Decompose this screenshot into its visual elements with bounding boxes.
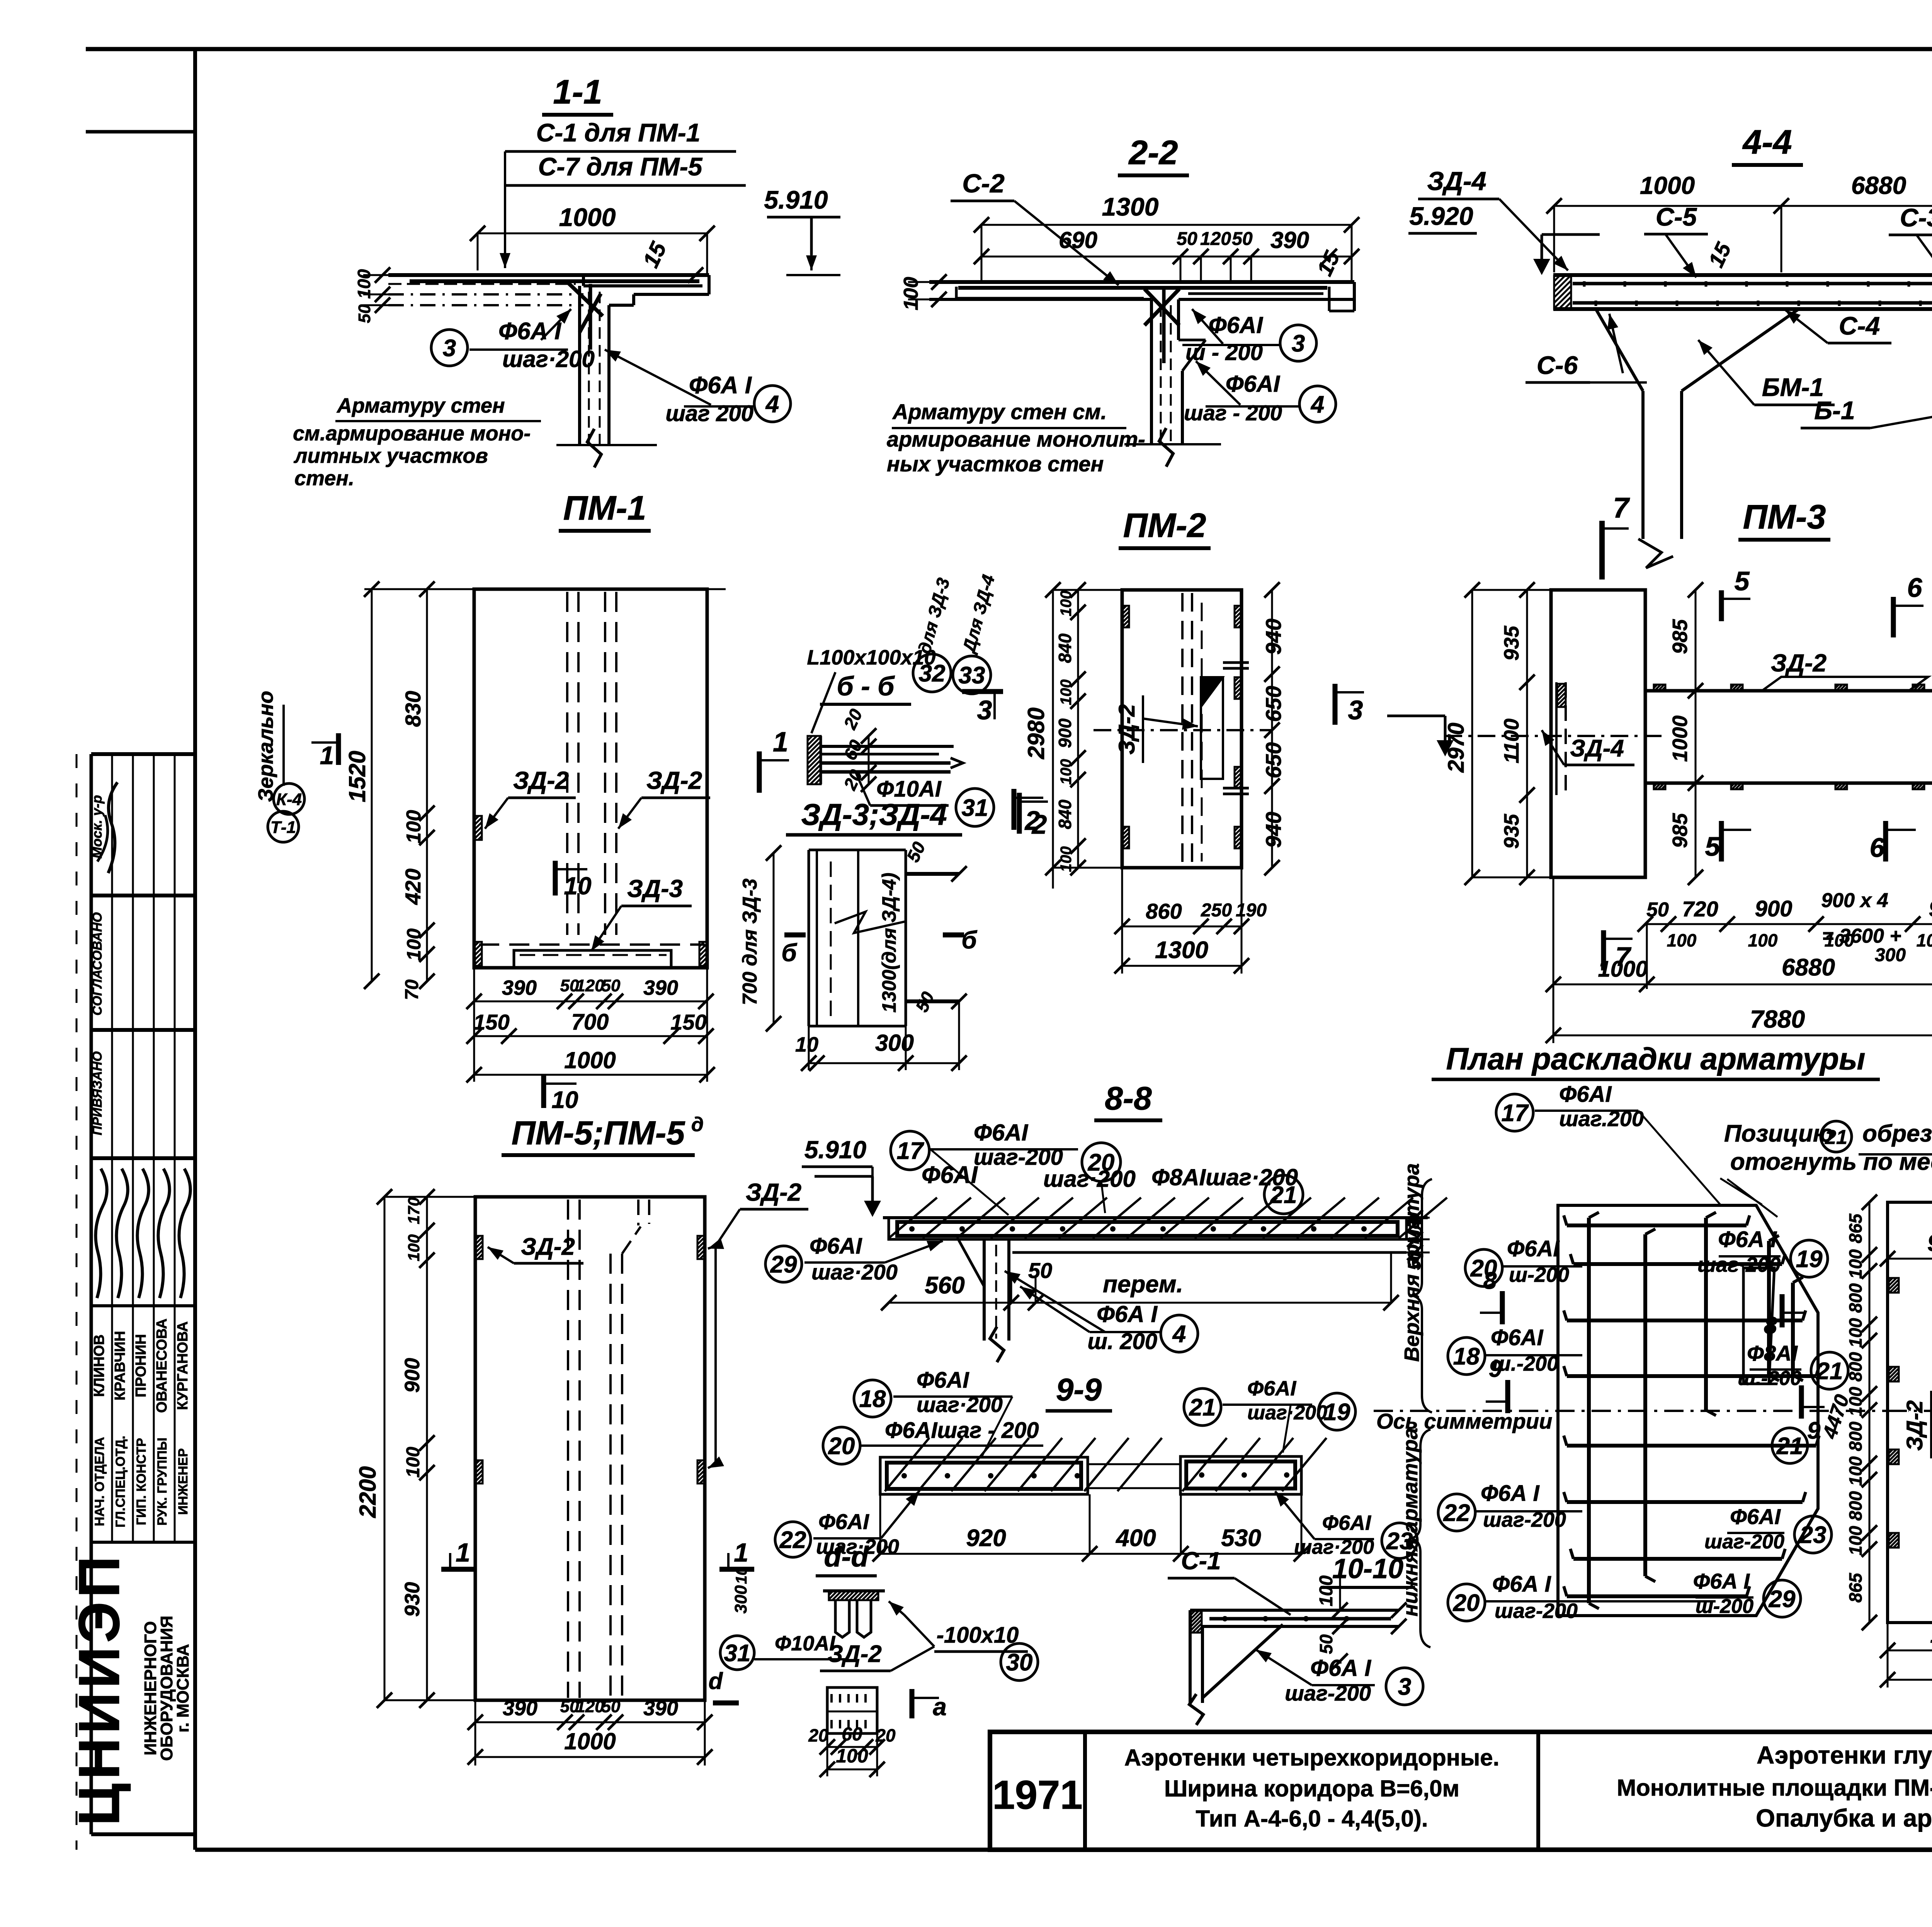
svg-text:100: 100 bbox=[403, 810, 425, 844]
svg-text:2970: 2970 bbox=[1444, 722, 1469, 773]
svg-text:420: 420 bbox=[401, 868, 425, 905]
svg-text:ЦНИИЭП: ЦНИИЭП bbox=[66, 1552, 131, 1826]
svg-text:1000: 1000 bbox=[1640, 172, 1695, 199]
svg-text:6: 6 bbox=[1870, 833, 1885, 863]
svg-text:100: 100 bbox=[1667, 930, 1697, 950]
svg-text:б: б bbox=[781, 939, 798, 967]
svg-text:4: 4 bbox=[1172, 1321, 1186, 1348]
svg-text:8: 8 bbox=[1483, 1268, 1497, 1294]
svg-text:ПРОНИН: ПРОНИН bbox=[133, 1334, 149, 1397]
svg-text:920: 920 bbox=[1927, 1230, 1932, 1256]
svg-text:Ф6А I: Ф6А I bbox=[1718, 1227, 1777, 1252]
svg-text:ш-200: ш-200 bbox=[1509, 1263, 1569, 1286]
svg-text:перем.: перем. bbox=[1103, 1271, 1183, 1298]
svg-text:ш-200: ш-200 bbox=[1696, 1595, 1753, 1618]
svg-text:1-1: 1-1 bbox=[553, 73, 602, 111]
svg-text:700 для ЗД-3: 700 для ЗД-3 bbox=[739, 879, 761, 1005]
svg-text:ш.-200: ш.-200 bbox=[1738, 1367, 1801, 1390]
svg-text:Ф6АI: Ф6АI bbox=[810, 1234, 862, 1259]
svg-text:4-4: 4-4 bbox=[1742, 123, 1792, 161]
svg-text:6880: 6880 bbox=[1851, 172, 1906, 199]
svg-text:940: 940 bbox=[1261, 812, 1286, 848]
svg-text:700: 700 bbox=[571, 1009, 609, 1035]
svg-text:300: 300 bbox=[1875, 945, 1906, 965]
svg-text:Ф6А I: Ф6А I bbox=[1097, 1301, 1158, 1327]
svg-text:100: 100 bbox=[403, 1447, 423, 1478]
svg-text:РУК. ГРУППЫ: РУК. ГРУППЫ bbox=[155, 1438, 170, 1526]
svg-text:50: 50 bbox=[1177, 229, 1197, 249]
svg-text:300: 300 bbox=[875, 1030, 914, 1056]
svg-text:20: 20 bbox=[828, 1433, 855, 1460]
svg-text:1: 1 bbox=[456, 1538, 470, 1567]
svg-text:390: 390 bbox=[502, 976, 537, 999]
svg-text:100: 100 bbox=[1316, 1575, 1337, 1606]
svg-text:ЗД-3: ЗД-3 bbox=[627, 875, 683, 902]
svg-text:ш.-200: ш.-200 bbox=[1492, 1352, 1558, 1375]
svg-text:29: 29 bbox=[770, 1251, 797, 1278]
svg-text:100: 100 bbox=[354, 269, 374, 299]
svg-text:ЗД-2: ЗД-2 bbox=[828, 1641, 882, 1667]
svg-text:7: 7 bbox=[1613, 492, 1630, 524]
svg-text:100: 100 bbox=[1748, 930, 1778, 950]
svg-text:ПМ-1: ПМ-1 bbox=[563, 489, 646, 527]
svg-text:ЗД-3;ЗД-4: ЗД-3;ЗД-4 bbox=[801, 797, 947, 831]
svg-text:840: 840 bbox=[1055, 633, 1075, 663]
svg-text:21: 21 bbox=[1270, 1182, 1297, 1208]
svg-text:ЗД-2: ЗД-2 bbox=[521, 1234, 575, 1260]
svg-text:3: 3 bbox=[1348, 695, 1363, 725]
svg-text:Ф6АI: Ф6АI bbox=[1322, 1511, 1371, 1534]
svg-text:Ф6А I: Ф6А I bbox=[498, 318, 562, 345]
svg-text:1000: 1000 bbox=[564, 1728, 616, 1754]
svg-text:Аэротенки глубиной 5.0м.: Аэротенки глубиной 5.0м. bbox=[1757, 1741, 1932, 1769]
svg-text:800: 800 bbox=[1845, 1421, 1866, 1451]
svg-text:20: 20 bbox=[875, 1725, 896, 1745]
svg-text:3: 3 bbox=[443, 335, 456, 362]
svg-text:50: 50 bbox=[602, 976, 621, 995]
svg-text:ГИП. КОНСТР: ГИП. КОНСТР bbox=[134, 1438, 149, 1525]
svg-text:100: 100 bbox=[1917, 930, 1932, 950]
svg-text:1000: 1000 bbox=[1668, 715, 1692, 762]
svg-text:литных участков: литных участков bbox=[293, 444, 488, 467]
svg-text:100: 100 bbox=[836, 1745, 868, 1767]
svg-text:22: 22 bbox=[1443, 1500, 1470, 1526]
svg-text:100: 100 bbox=[403, 928, 425, 961]
svg-text:17: 17 bbox=[1502, 1100, 1529, 1127]
svg-text:190: 190 bbox=[1236, 900, 1267, 921]
svg-text:910: 910 bbox=[1929, 896, 1932, 921]
svg-text:КУРГАНОВА: КУРГАНОВА bbox=[175, 1321, 191, 1410]
svg-text:ГЛ.СПЕЦ.ОТД.: ГЛ.СПЕЦ.ОТД. bbox=[113, 1436, 128, 1528]
svg-text:1300(для ЗД-4): 1300(для ЗД-4) bbox=[878, 873, 900, 1013]
svg-text:390: 390 bbox=[643, 976, 678, 999]
svg-text:10: 10 bbox=[733, 1567, 750, 1584]
svg-text:650: 650 bbox=[1261, 742, 1286, 778]
svg-text:100: 100 bbox=[1058, 759, 1075, 785]
svg-text:КЛИНОВ: КЛИНОВ bbox=[91, 1334, 107, 1397]
svg-text:100: 100 bbox=[405, 1234, 423, 1261]
svg-text:50: 50 bbox=[1316, 1634, 1336, 1654]
svg-text:Б-1: Б-1 bbox=[1814, 396, 1855, 425]
svg-text:2-2: 2-2 bbox=[1128, 133, 1178, 172]
svg-text:7: 7 bbox=[1616, 941, 1632, 972]
svg-text:7880: 7880 bbox=[1750, 1005, 1805, 1033]
svg-text:530: 530 bbox=[1221, 1525, 1261, 1551]
svg-text:ПМ-3: ПМ-3 bbox=[1743, 498, 1826, 536]
svg-text:60: 60 bbox=[842, 1724, 862, 1745]
svg-text:20: 20 bbox=[808, 1725, 828, 1745]
svg-text:д: д bbox=[691, 1113, 704, 1136]
svg-text:50: 50 bbox=[355, 304, 374, 323]
svg-text:Аэротенки четырехкоридорные.: Аэротенки четырехкоридорные. bbox=[1124, 1745, 1500, 1771]
svg-text:860: 860 bbox=[1146, 899, 1182, 923]
svg-text:9: 9 bbox=[1807, 1417, 1821, 1444]
svg-text:ОВАНЕСОВА: ОВАНЕСОВА bbox=[154, 1319, 170, 1413]
svg-text:С-1 для ПМ-1: С-1 для ПМ-1 bbox=[536, 118, 701, 147]
svg-text:985: 985 bbox=[1668, 619, 1692, 654]
svg-text:10: 10 bbox=[564, 872, 591, 900]
svg-text:С-5: С-5 bbox=[1656, 202, 1697, 231]
svg-text:5.910: 5.910 bbox=[804, 1136, 866, 1164]
svg-text:С-2: С-2 bbox=[962, 169, 1005, 198]
svg-text:С-4: С-4 bbox=[1839, 311, 1880, 340]
svg-text:2200: 2200 bbox=[355, 1466, 381, 1518]
svg-text:100: 100 bbox=[1845, 1249, 1866, 1279]
svg-text:935: 935 bbox=[1500, 814, 1523, 849]
svg-text:100: 100 bbox=[1845, 1526, 1866, 1555]
svg-text:шаг·200: шаг·200 bbox=[917, 1392, 1003, 1417]
svg-text:21: 21 bbox=[1825, 1126, 1847, 1149]
svg-text:1: 1 bbox=[320, 741, 334, 770]
svg-text:900: 900 bbox=[401, 1358, 424, 1393]
svg-text:10-10: 10-10 bbox=[1332, 1553, 1403, 1584]
svg-text:Ф6АI: Ф6АI bbox=[818, 1509, 869, 1534]
svg-text:20: 20 bbox=[840, 706, 866, 733]
svg-text:15: 15 bbox=[1704, 238, 1736, 271]
svg-text:Позицию: Позицию bbox=[1724, 1120, 1834, 1147]
svg-text:Верхняя арматура: Верхняя арматура bbox=[1400, 1163, 1423, 1362]
svg-text:3: 3 bbox=[1292, 330, 1305, 357]
svg-text:ЗД-2: ЗД-2 bbox=[513, 766, 569, 794]
svg-text:К-4: К-4 bbox=[276, 790, 302, 809]
svg-text:Тип А-4-6,0 - 4,4(5,0).: Тип А-4-6,0 - 4,4(5,0). bbox=[1196, 1806, 1428, 1832]
svg-text:б - б: б - б bbox=[837, 671, 895, 701]
svg-text:шаг·200: шаг·200 bbox=[1697, 1253, 1781, 1276]
svg-text:2980: 2980 bbox=[1023, 707, 1049, 759]
svg-text:Ф6АI: Ф6АI bbox=[1559, 1082, 1612, 1107]
svg-text:250: 250 bbox=[1201, 900, 1232, 921]
svg-text:5.910: 5.910 bbox=[764, 185, 828, 214]
svg-text:С-7 для ПМ-5: С-7 для ПМ-5 bbox=[538, 152, 703, 181]
svg-text:300: 300 bbox=[731, 1585, 750, 1614]
svg-text:1520: 1520 bbox=[344, 751, 370, 802]
svg-text:30: 30 bbox=[1006, 1649, 1033, 1676]
svg-text:Арматуру стен см.: Арматуру стен см. bbox=[892, 399, 1107, 424]
svg-text:15: 15 bbox=[638, 238, 671, 272]
svg-text:1000: 1000 bbox=[564, 1047, 616, 1073]
svg-text:10: 10 bbox=[795, 1033, 818, 1056]
svg-text:100: 100 bbox=[1058, 680, 1075, 705]
svg-text:Опалубка и армирование.: Опалубка и армирование. bbox=[1756, 1804, 1932, 1832]
svg-text:Ф6А I: Ф6А I bbox=[689, 372, 752, 399]
svg-text:120: 120 bbox=[1200, 229, 1231, 249]
svg-text:ЗД-4: ЗД-4 bbox=[1427, 167, 1486, 196]
svg-text:1: 1 bbox=[773, 727, 788, 758]
svg-text:СОГЛАСОВАНО: СОГЛАСОВАНО bbox=[90, 912, 105, 1015]
svg-text:920: 920 bbox=[966, 1525, 1006, 1551]
svg-text:18: 18 bbox=[1453, 1343, 1480, 1370]
svg-text:18: 18 bbox=[859, 1386, 886, 1412]
svg-text:390: 390 bbox=[643, 1697, 678, 1720]
svg-text:Арматуру стен: Арматуру стен bbox=[336, 394, 505, 417]
svg-text:120: 120 bbox=[576, 1697, 604, 1716]
svg-text:обрезать и: обрезать и bbox=[1862, 1120, 1932, 1147]
svg-text:170: 170 bbox=[405, 1197, 423, 1224]
svg-text:985: 985 bbox=[1668, 813, 1692, 848]
svg-text:шаг - 200: шаг - 200 bbox=[1184, 401, 1282, 425]
svg-text:б: б bbox=[961, 926, 978, 954]
svg-text:КРАВЧИН: КРАВЧИН bbox=[112, 1331, 128, 1400]
svg-text:План раскладки арматуры: План раскладки арматуры bbox=[1446, 1042, 1866, 1076]
svg-text:8-8: 8-8 bbox=[1105, 1080, 1152, 1116]
svg-text:нижняя арматура: нижняя арматура bbox=[1399, 1428, 1422, 1617]
svg-text:С-3: С-3 bbox=[1900, 203, 1932, 232]
svg-text:4: 4 bbox=[765, 391, 779, 418]
svg-text:d-d: d-d bbox=[824, 1541, 869, 1573]
svg-text:100: 100 bbox=[1845, 1318, 1866, 1348]
svg-text:1000: 1000 bbox=[1930, 1622, 1932, 1648]
svg-text:-100x10: -100x10 bbox=[937, 1623, 1019, 1648]
svg-text:50: 50 bbox=[1646, 899, 1669, 921]
svg-text:L100x100x10: L100x100x10 bbox=[807, 646, 935, 669]
svg-text:21: 21 bbox=[1816, 1358, 1843, 1385]
svg-text:Ширина коридора В=6,0м: Ширина коридора В=6,0м bbox=[1164, 1776, 1459, 1801]
svg-text:800: 800 bbox=[1845, 1283, 1866, 1313]
svg-text:3: 3 bbox=[977, 695, 992, 725]
svg-text:Ф6АI: Ф6АI bbox=[1226, 371, 1281, 397]
svg-text:120: 120 bbox=[576, 976, 604, 995]
svg-text:Ф6АI: Ф6АI bbox=[1209, 312, 1264, 338]
svg-text:150: 150 bbox=[473, 1010, 509, 1034]
svg-text:720: 720 bbox=[1682, 897, 1718, 921]
svg-text:29: 29 bbox=[1769, 1586, 1796, 1613]
svg-text:1100: 1100 bbox=[1500, 719, 1523, 763]
svg-text:865: 865 bbox=[1845, 1213, 1866, 1243]
svg-text:ПРИВЯЗАНО: ПРИВЯЗАНО bbox=[90, 1051, 105, 1135]
svg-text:1: 1 bbox=[734, 1538, 748, 1567]
svg-text:Ф6АI: Ф6АI bbox=[1730, 1504, 1781, 1529]
svg-text:1971: 1971 bbox=[992, 1772, 1083, 1818]
svg-text:19: 19 bbox=[1324, 1399, 1350, 1426]
svg-text:100: 100 bbox=[1825, 930, 1854, 950]
svg-text:100: 100 bbox=[1058, 591, 1075, 617]
svg-text:Ф6А I: Ф6А I bbox=[1693, 1569, 1750, 1593]
svg-text:9: 9 bbox=[1489, 1356, 1502, 1382]
svg-text:ЗД-4: ЗД-4 bbox=[1570, 735, 1624, 762]
svg-text:ЗД-2: ЗД-2 bbox=[1902, 1400, 1927, 1451]
svg-text:ПМ-5;ПМ-5: ПМ-5;ПМ-5 bbox=[512, 1115, 685, 1152]
svg-text:шаг·200: шаг·200 bbox=[811, 1260, 898, 1284]
svg-text:840: 840 bbox=[1055, 799, 1075, 829]
svg-text:100: 100 bbox=[1845, 1456, 1866, 1486]
svg-text:шаг-200: шаг-200 bbox=[1704, 1531, 1784, 1553]
svg-text:армирование монолит-: армирование монолит- bbox=[887, 427, 1145, 451]
svg-text:Моск. у-р: Моск. у-р bbox=[89, 795, 105, 858]
svg-text:935: 935 bbox=[1500, 625, 1523, 661]
svg-text:Ф6А I: Ф6А I bbox=[1492, 1572, 1552, 1597]
svg-text:21: 21 bbox=[1776, 1433, 1803, 1460]
svg-text:Ф6А I: Ф6А I bbox=[1481, 1481, 1540, 1506]
svg-text:1300: 1300 bbox=[1155, 937, 1208, 964]
svg-text:20: 20 bbox=[1453, 1590, 1480, 1616]
svg-text:Ф6АI: Ф6АI bbox=[1507, 1236, 1560, 1261]
svg-text:Ф10АI: Ф10АI bbox=[775, 1632, 835, 1655]
svg-text:шаг-200: шаг-200 bbox=[1483, 1508, 1566, 1531]
svg-text:Ф6АI: Ф6АI bbox=[974, 1120, 1029, 1145]
svg-text:для ЗД-3: для ЗД-3 bbox=[914, 576, 953, 656]
svg-text:Зеркально: Зеркально bbox=[254, 691, 277, 802]
svg-text:НАЧ. ОТДЕЛА: НАЧ. ОТДЕЛА bbox=[92, 1437, 107, 1526]
svg-text:19: 19 bbox=[1796, 1246, 1823, 1273]
svg-text:1300: 1300 bbox=[1102, 192, 1159, 221]
svg-text:ЗД-2: ЗД-2 bbox=[646, 766, 702, 794]
svg-text:900 x 4: 900 x 4 bbox=[1821, 889, 1888, 912]
svg-text:800: 800 bbox=[1845, 1491, 1866, 1521]
svg-text:С-1: С-1 bbox=[1181, 1547, 1221, 1575]
svg-text:150: 150 bbox=[670, 1010, 706, 1034]
svg-text:см.армирование моно-: см.армирование моно- bbox=[293, 422, 531, 445]
svg-text:6: 6 bbox=[1907, 573, 1923, 603]
svg-text:400: 400 bbox=[1115, 1525, 1156, 1551]
svg-text:70: 70 bbox=[402, 979, 422, 1000]
svg-text:15: 15 bbox=[1312, 247, 1345, 279]
svg-text:830: 830 bbox=[401, 691, 425, 727]
svg-text:ПМ-2: ПМ-2 bbox=[1123, 506, 1206, 544]
svg-text:9-9: 9-9 bbox=[1056, 1372, 1102, 1407]
svg-text:10: 10 bbox=[552, 1087, 578, 1113]
svg-text:ных участков стен: ных участков стен bbox=[887, 452, 1104, 476]
svg-text:650: 650 bbox=[1261, 686, 1286, 722]
svg-text:560: 560 bbox=[925, 1272, 964, 1299]
svg-text:ИНЖЕНЕР: ИНЖЕНЕР bbox=[176, 1448, 190, 1515]
svg-text:690: 690 bbox=[1059, 227, 1097, 253]
svg-text:шаг-200: шаг-200 bbox=[1495, 1599, 1578, 1623]
svg-text:21: 21 bbox=[1189, 1394, 1216, 1421]
svg-text:50: 50 bbox=[1028, 1258, 1052, 1283]
svg-text:шаг·200: шаг·200 bbox=[1043, 1166, 1136, 1192]
svg-text:а: а bbox=[933, 1693, 947, 1721]
svg-text:Монолитные площадки ПМ-1;ПМ-2;: Монолитные площадки ПМ-1;ПМ-2;ПМ-3;ПМ-5;… bbox=[1617, 1775, 1932, 1801]
svg-text:г. МОСКВА: г. МОСКВА bbox=[173, 1644, 192, 1732]
svg-text:31: 31 bbox=[724, 1640, 751, 1667]
svg-text:940: 940 bbox=[1261, 619, 1286, 654]
svg-text:Ф8АI: Ф8АI bbox=[1747, 1341, 1798, 1365]
svg-text:1000: 1000 bbox=[559, 203, 616, 231]
svg-text:Для ЗД-4: Для ЗД-4 bbox=[958, 573, 998, 656]
svg-text:С-6: С-6 bbox=[1537, 351, 1578, 379]
svg-text:Т-1: Т-1 bbox=[270, 818, 296, 837]
svg-text:22: 22 bbox=[779, 1527, 806, 1553]
svg-text:930: 930 bbox=[401, 1582, 424, 1617]
svg-text:5: 5 bbox=[1735, 566, 1750, 596]
svg-text:900: 900 bbox=[1055, 718, 1075, 748]
svg-text:шаг.200: шаг.200 bbox=[1559, 1106, 1644, 1131]
svg-text:865: 865 bbox=[1845, 1572, 1866, 1602]
svg-text:8: 8 bbox=[1764, 1312, 1777, 1339]
svg-text:5.920: 5.920 bbox=[1409, 202, 1473, 230]
svg-text:3: 3 bbox=[1398, 1674, 1411, 1700]
svg-text:Ф6АI: Ф6АI bbox=[1247, 1377, 1296, 1400]
svg-text:Ф6АI: Ф6АI bbox=[1491, 1325, 1544, 1350]
svg-text:31: 31 bbox=[962, 795, 988, 821]
svg-text:отогнуть по месту: отогнуть по месту bbox=[1730, 1149, 1932, 1175]
svg-text:стен.: стен. bbox=[294, 467, 354, 490]
svg-text:390: 390 bbox=[503, 1697, 537, 1720]
svg-text:50: 50 bbox=[602, 1697, 621, 1716]
svg-text:шаг-200: шаг-200 bbox=[1285, 1681, 1371, 1705]
svg-text:ЗД-2: ЗД-2 bbox=[746, 1178, 801, 1206]
svg-text:50: 50 bbox=[912, 989, 938, 1015]
svg-text:4: 4 bbox=[1310, 391, 1324, 418]
svg-text:d: d bbox=[709, 1668, 723, 1694]
svg-text:800: 800 bbox=[1845, 1352, 1866, 1382]
svg-text:50: 50 bbox=[1232, 229, 1253, 249]
svg-text:5: 5 bbox=[1705, 831, 1721, 862]
svg-text:6880: 6880 bbox=[1782, 954, 1835, 981]
svg-text:900: 900 bbox=[1755, 896, 1793, 921]
svg-text:23: 23 bbox=[1799, 1522, 1827, 1548]
svg-text:33: 33 bbox=[959, 662, 985, 689]
svg-text:шаг·200: шаг·200 bbox=[502, 346, 595, 372]
svg-text:Ф6АI: Ф6АI bbox=[917, 1368, 969, 1393]
svg-text:17: 17 bbox=[897, 1138, 924, 1164]
svg-text:390: 390 bbox=[1270, 227, 1309, 253]
svg-text:2: 2 bbox=[1031, 809, 1047, 839]
svg-text:ЗД-2: ЗД-2 bbox=[1771, 649, 1827, 677]
svg-text:ш. 200: ш. 200 bbox=[1087, 1329, 1157, 1354]
svg-text:Ф6А I: Ф6А I bbox=[1310, 1655, 1371, 1681]
